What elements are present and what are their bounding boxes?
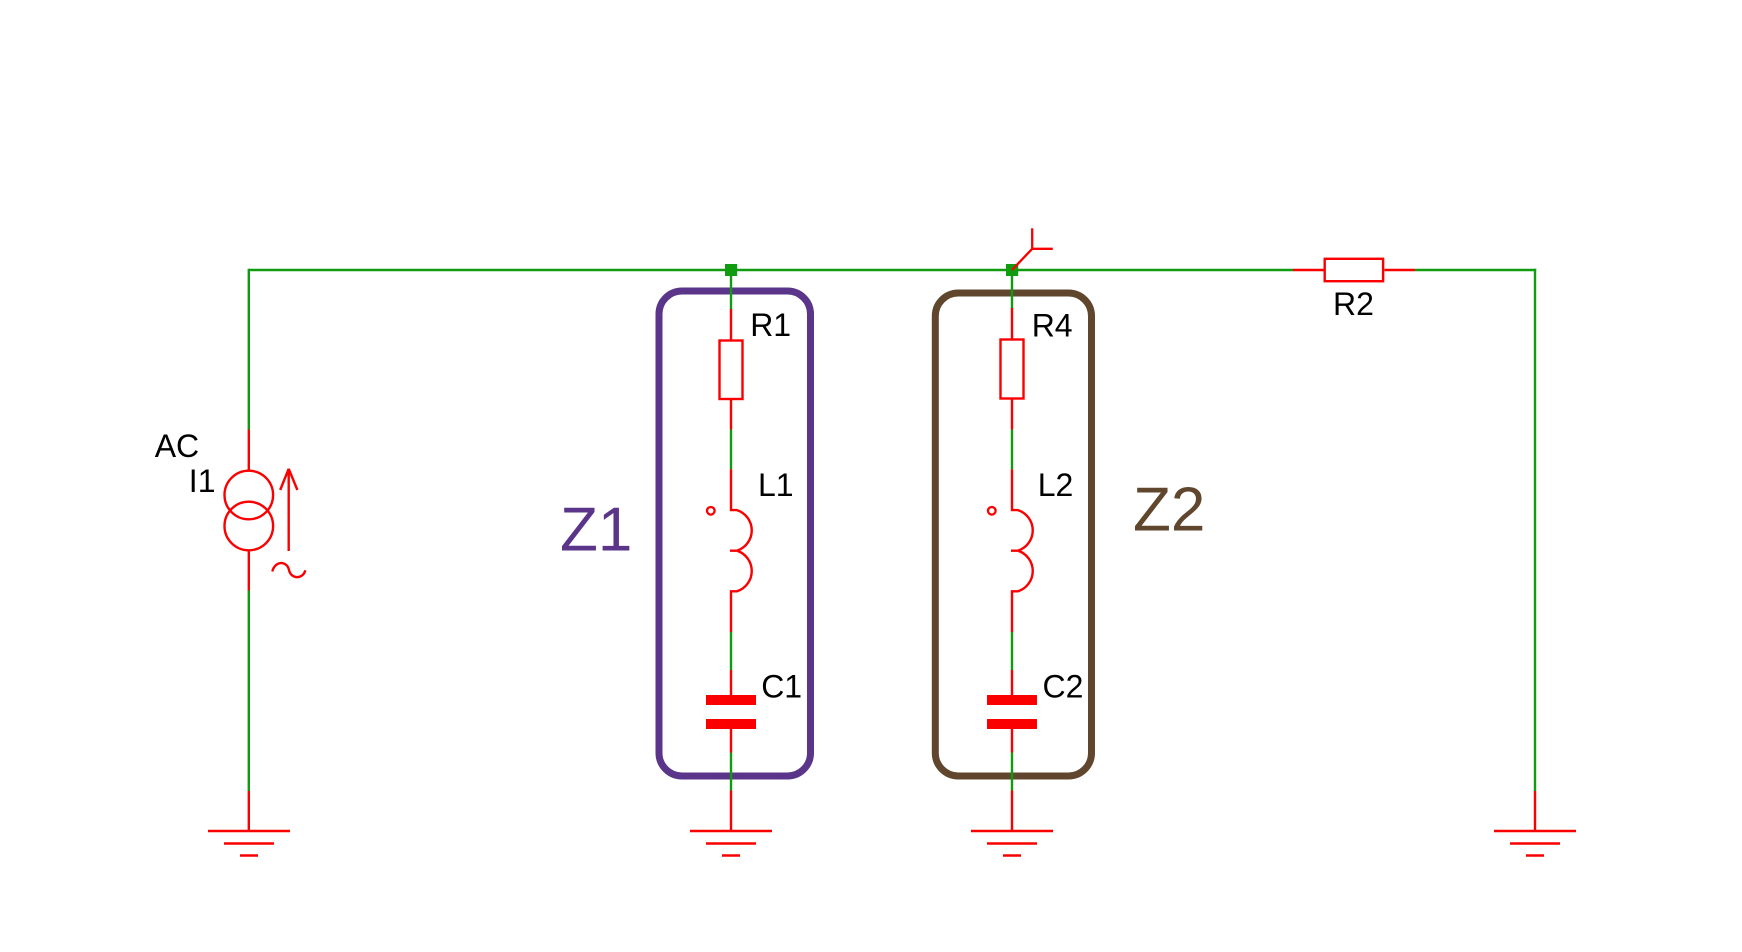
wire Z2 from junction green — [1011, 276, 1013, 308]
svg-text:Z1: Z1 — [560, 496, 632, 565]
capacitor C1 plate top — [706, 695, 756, 705]
resistor R1 pin bottom — [730, 400, 732, 430]
ground left — [208, 791, 290, 856]
wire Z2 mid green — [1011, 430, 1013, 470]
svg-text:AC: AC — [155, 428, 199, 464]
svg-text:R2: R2 — [1333, 286, 1374, 322]
probe symbol at node — [1012, 228, 1053, 270]
capacitor C1 plate bottom — [706, 719, 756, 729]
svg-text:C2: C2 — [1043, 669, 1084, 705]
wire top horizontal green right part — [1415, 269, 1536, 271]
capacitor C2 plate top — [987, 695, 1037, 705]
wire Z1 bottom green — [730, 753, 732, 791]
node junction square Z1 top — [725, 264, 737, 276]
wire Z1 lower green — [730, 632, 732, 670]
wire Z1 from junction green — [730, 276, 732, 309]
AC current source I1 pin bottom — [248, 551, 250, 591]
wire top horizontal green left part — [249, 269, 1293, 271]
resistor R4 pin bottom — [1011, 399, 1013, 430]
wire Z2 bottom green — [1011, 753, 1013, 791]
capacitor C2 pin top — [1011, 670, 1013, 695]
resistor R1 pin top — [730, 309, 732, 340]
resistor R2 pin right — [1385, 269, 1416, 271]
ground right — [1494, 791, 1576, 856]
wire Z1 mid green — [730, 430, 732, 470]
AC source arrow — [280, 469, 297, 551]
capacitor C1 pin top — [730, 670, 732, 695]
resistor R2 body — [1325, 259, 1383, 281]
ground Z2 pin — [971, 791, 1053, 856]
svg-text:C1: C1 — [761, 668, 802, 704]
wire left vertical green lower — [248, 591, 250, 792]
svg-text:Z2: Z2 — [1133, 476, 1205, 545]
inductor L1 coil — [730, 469, 752, 632]
capacitor C2 plate bottom — [987, 719, 1037, 729]
AC current source I1 circle upper — [225, 471, 274, 520]
AC current source I1 pin top — [248, 430, 250, 472]
svg-text:I1: I1 — [189, 463, 216, 499]
node junction square Z2 top — [1006, 264, 1018, 276]
wire Z2 lower green — [1011, 632, 1013, 670]
AC current source I1 circle lower — [225, 502, 274, 551]
impedance block Z2 box — [935, 293, 1091, 776]
wire left vertical green upper — [248, 269, 250, 430]
svg-text:R1: R1 — [750, 307, 791, 343]
wire right vertical green — [1534, 269, 1536, 791]
resistor R4 body — [1001, 340, 1024, 399]
svg-text:L1: L1 — [758, 467, 794, 503]
impedance block Z1 box — [659, 291, 811, 776]
resistor R2 pin left — [1293, 269, 1324, 271]
inductor L1 phase dot — [707, 507, 715, 515]
svg-text:R4: R4 — [1032, 308, 1073, 344]
resistor R4 pin top — [1011, 308, 1013, 339]
AC source sine tilde — [272, 563, 305, 577]
ground Z1 pin — [690, 791, 772, 856]
svg-text:L2: L2 — [1038, 467, 1074, 503]
capacitor C2 pin bottom — [1011, 729, 1013, 753]
inductor L2 phase dot — [988, 507, 996, 515]
capacitor C1 pin bottom — [730, 729, 732, 753]
resistor R1 body — [720, 341, 743, 400]
inductor L2 coil — [1011, 469, 1033, 632]
